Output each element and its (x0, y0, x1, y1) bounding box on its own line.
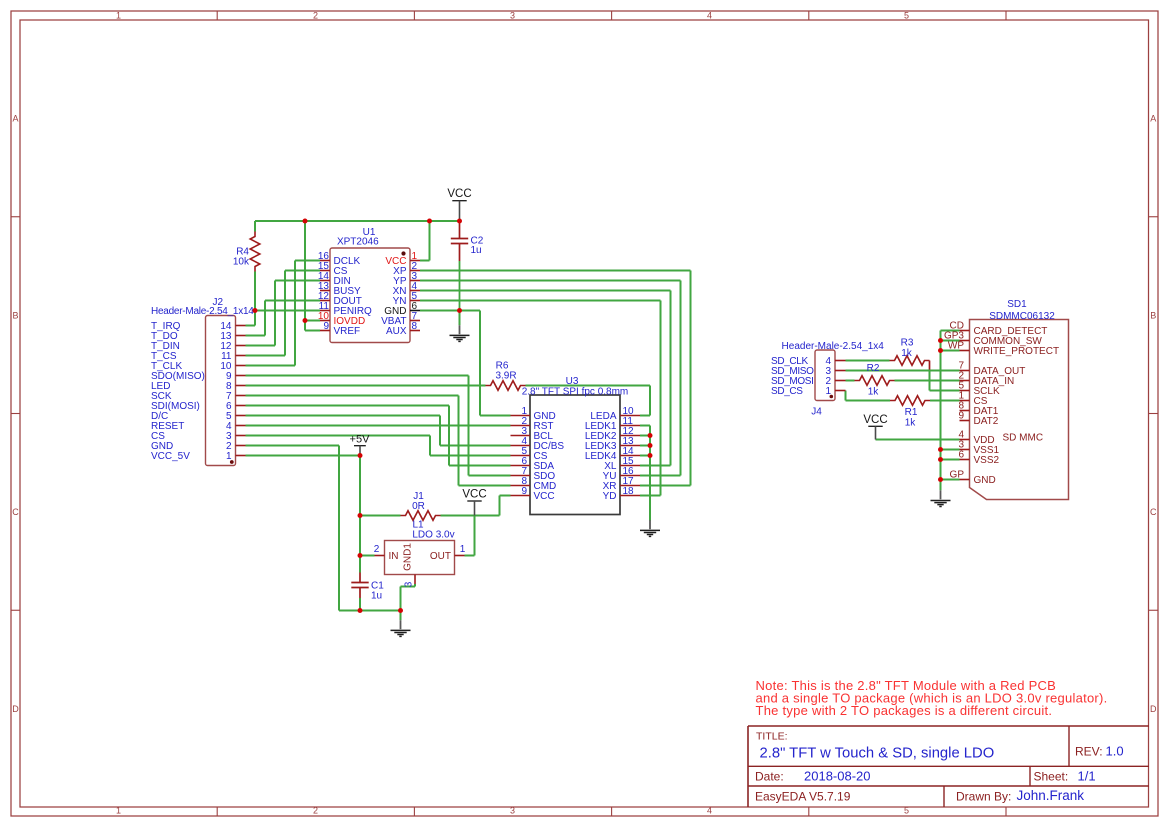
wire net +5V vertical to J1 and LDO IN and C1 (360, 456, 401, 573)
J2 pin 14 T_IRQ (151, 321, 246, 332)
title block REV cell (1075, 743, 1124, 758)
junction U1 GND / C2 / ground (457, 308, 462, 313)
J4 pin 1 SD_CS (771, 386, 846, 397)
U1 pin 14 DIN (318, 271, 351, 287)
svg-text:1: 1 (116, 10, 121, 20)
op-amp/IC U1 XPT2046 body (330, 248, 410, 343)
note annotation text (756, 678, 1108, 718)
resistor R6 3.9R (486, 361, 526, 391)
wire net VCC_5V to +5V (246, 455, 361, 457)
J2 pin 8 LED (151, 381, 246, 392)
svg-text:VSS2: VSS2 (974, 455, 1000, 466)
junction LEDK2 tap (648, 433, 653, 438)
L1 pin 1 OUT (430, 544, 466, 562)
junction LDO GND / ground rail (398, 608, 403, 613)
svg-text:9: 9 (323, 321, 329, 332)
junction COMMON_SW ground tap (938, 338, 943, 343)
connector SD1 SDMMC06132 body (970, 320, 1069, 500)
svg-text:TITLE:: TITLE: (756, 731, 788, 743)
J2 pin 4 RESET (151, 421, 246, 432)
J2 pin 11 T_CS (151, 351, 246, 362)
U1 pin 11 PENIRQ (319, 301, 372, 317)
U3 pin 11 LEDK1 (585, 416, 640, 432)
svg-text:C: C (1150, 507, 1157, 517)
svg-text:SD MMC: SD MMC (1003, 433, 1044, 444)
J2 pin 9 SDO(MISO) (151, 371, 246, 382)
U3 pin 5 CS (511, 446, 548, 462)
svg-text:REV:: REV: (1075, 744, 1103, 758)
J2 pin 2 GND (151, 441, 246, 452)
svg-text:J4: J4 (811, 407, 822, 418)
SD1 pin 7 DATA_OUT (958, 361, 1025, 378)
junction LDO IN tap (358, 553, 363, 558)
wire net YP to YU (420, 281, 681, 476)
resistor R3 1k (890, 338, 930, 366)
svg-text:1k: 1k (905, 417, 917, 428)
wire VCC to U1 pin1 (420, 221, 430, 261)
SD1 pin 1 CS (958, 391, 987, 408)
svg-text:IN: IN (389, 551, 399, 562)
resistor J1 0R (401, 491, 441, 520)
svg-text:3: 3 (510, 806, 515, 816)
capacitor C1 1u (351, 573, 384, 602)
U3 designator labels (522, 376, 629, 397)
power flag VCC (above C2) (447, 188, 471, 221)
svg-text:2: 2 (374, 544, 380, 555)
U1 designator labels (337, 227, 379, 248)
svg-text:1/1: 1/1 (1078, 768, 1096, 783)
J4 pin 3 SD_MISO (771, 366, 846, 377)
wire net T_DO to DOUT (246, 301, 321, 336)
U3 pin 10 LEDA (590, 406, 640, 422)
wire net SD_CS to R1 (846, 391, 891, 401)
svg-text:R3: R3 (901, 338, 914, 349)
U1 pin 16 DCLK (318, 251, 361, 267)
J2 designator and name labels (151, 297, 254, 317)
power flag +5V (350, 433, 371, 455)
SD1 pin WP WRITE_PROTECT (948, 341, 1059, 358)
svg-text:2018-08-20: 2018-08-20 (804, 768, 871, 783)
power flag VCC (at SD VDD) (863, 414, 887, 440)
wire net CS to U3 CS (246, 436, 511, 456)
U3 pin 8 CMD (511, 476, 557, 492)
wire net XN to XL (420, 291, 671, 466)
junction WRITE_PROTECT ground tap (938, 348, 943, 353)
svg-text:5: 5 (904, 10, 909, 20)
svg-text:4: 4 (707, 806, 712, 816)
svg-text:3: 3 (510, 10, 515, 20)
U1 pin 10 IOVDD (318, 311, 365, 327)
junction +5V / J1 input (358, 513, 363, 518)
svg-text:1k: 1k (868, 387, 880, 398)
capacitor C2 1u (451, 221, 484, 311)
power flag VCC (at J1 output) (462, 489, 486, 516)
svg-text:B: B (1150, 310, 1156, 320)
title block Date row (755, 768, 1096, 783)
svg-text:Sheet:: Sheet: (1034, 769, 1069, 783)
svg-text:SDMMC06132: SDMMC06132 (989, 311, 1055, 322)
J2 pin 5 D/C (151, 411, 246, 422)
title block bottom row (755, 788, 1084, 803)
U3 pin 6 SDA (511, 456, 555, 472)
svg-text:VCC_5V: VCC_5V (151, 451, 190, 462)
junction VCC rail / C2 (457, 219, 462, 224)
U1 pin 4 XN (393, 281, 420, 297)
U1 pin 2 XP (393, 261, 420, 277)
svg-text:VCC: VCC (863, 414, 887, 426)
U1 pin 9 VREF (320, 321, 360, 337)
U3 pin 18 YD (603, 486, 640, 502)
wire net SD_MISO to DATA_OUT (846, 370, 960, 372)
svg-text:EasyEDA V5.7.19: EasyEDA V5.7.19 (755, 790, 851, 804)
svg-text:OUT: OUT (430, 551, 451, 562)
svg-text:9: 9 (958, 411, 964, 422)
U1 pin 13 BUSY (318, 281, 361, 297)
svg-text:18: 18 (623, 486, 635, 497)
svg-text:DAT2: DAT2 (974, 416, 999, 427)
J2 pin 1 VCC_5V (151, 451, 246, 462)
wire R4 top lead from VCC rail (254, 221, 256, 232)
junction IOVDD / VREF tap (303, 318, 308, 323)
svg-text:5: 5 (904, 806, 909, 816)
junction VCC rail / IOVDD branch (303, 219, 308, 224)
U1 pin 3 YP (393, 271, 420, 287)
SD1 pin 8 DAT1 (958, 401, 998, 418)
J2 pin 13 T_DO (151, 331, 246, 342)
wire VCC branch to IOVDD and VREF (305, 221, 320, 331)
svg-text:John.Frank: John.Frank (1017, 788, 1085, 803)
svg-text:3.9R: 3.9R (495, 371, 516, 382)
wire net SDI(MOSI) to U3 SDA (246, 406, 511, 466)
junction VSS1 ground tap (938, 447, 943, 452)
svg-text:AUX: AUX (386, 326, 407, 337)
wire net LDO GND pin to ground rail (401, 584, 416, 611)
wire net RESET to U3 RST (246, 425, 511, 427)
ground below SD card (931, 480, 951, 507)
svg-text:R2: R2 (867, 363, 880, 374)
junction SD GND tap (938, 477, 943, 482)
junction C1 / ground rail (358, 608, 363, 613)
svg-text:R1: R1 (905, 407, 918, 418)
regulator L1 LDO 3.0v body (385, 541, 455, 575)
U3 pin 17 XR (603, 476, 640, 492)
wire net YN to YD (420, 301, 661, 496)
junction VSS2 ground tap (938, 457, 943, 462)
SD1 pin 4 VDD (958, 430, 994, 447)
wire net D/C to U3 DC/BS (246, 416, 511, 446)
J2 pin 7 SCK (151, 391, 246, 402)
svg-text:GND1: GND1 (403, 543, 414, 571)
wire net T_DIN to DIN (246, 281, 321, 346)
J4 pin-1 marker dot (830, 395, 834, 399)
svg-text:1u: 1u (371, 591, 382, 602)
SD1 pin 2 DATA_IN (958, 371, 1014, 388)
U1 pin 5 YN (393, 291, 420, 307)
junction VCC rail / U1 pin1 branch (427, 219, 432, 224)
wire VCC top rail (255, 220, 460, 222)
wire net XP to XR (420, 271, 691, 486)
wire R3 bent lead (929, 361, 931, 370)
SD1 label SD MMC (1003, 433, 1044, 444)
wire net LED to R6 (246, 385, 486, 387)
U3 pin 13 LEDK3 (585, 436, 640, 452)
SD1 pin 3 VSS1 (958, 440, 999, 457)
U3 pin 3 BCL (511, 426, 554, 442)
svg-text:SD_CS: SD_CS (771, 386, 803, 397)
J2 pin-1 marker dot (230, 460, 234, 464)
svg-text:VCC: VCC (447, 188, 471, 200)
svg-text:10k: 10k (233, 257, 250, 268)
wire net SD_MOSI to R2 (846, 380, 855, 382)
ground below U3 LEDK (640, 510, 660, 536)
U3 pin 14 LEDK4 (585, 446, 640, 462)
junction LEDK3 tap (648, 443, 653, 448)
J2 pin 10 T_CLK (151, 361, 246, 372)
svg-text:1: 1 (460, 544, 466, 555)
junction R4 / T_IRQ / PENIRQ (253, 308, 258, 313)
svg-text:Header-Male-2.54_1x14: Header-Male-2.54_1x14 (151, 306, 254, 317)
svg-text:A: A (1150, 114, 1156, 124)
junction LEDK4 tap (648, 453, 653, 458)
svg-text:VCC: VCC (534, 491, 555, 502)
svg-text:2.8" TFT w Touch & SD, single: 2.8" TFT w Touch & SD, single LDO (760, 745, 995, 761)
wire net T_CS to CS (246, 271, 321, 356)
svg-text:Date:: Date: (755, 769, 784, 783)
U1 pin 7 VBAT (381, 311, 420, 327)
svg-text:3: 3 (404, 581, 415, 587)
U3 pin 9 VCC (511, 486, 555, 502)
svg-text:2: 2 (313, 806, 318, 816)
U1 pin 6 GND (384, 301, 420, 317)
U3 pin 16 YU (603, 466, 640, 482)
L1 designator labels (412, 519, 454, 540)
J4 designator and name labels (782, 341, 885, 418)
J4 pin 2 SD_MOSI (771, 376, 846, 387)
wire net R6 to LEDA (526, 386, 651, 416)
U1 pin 15 CS (318, 261, 348, 277)
wire net SCK to U3 CMD (246, 396, 511, 486)
svg-text:1k: 1k (901, 348, 913, 359)
svg-text:+5V: +5V (350, 433, 371, 445)
svg-text:LDO 3.0v: LDO 3.0v (412, 529, 454, 540)
J4 pin 4 SD_CLK (771, 356, 846, 367)
svg-text:C: C (12, 507, 19, 517)
svg-text:D: D (1150, 704, 1157, 714)
svg-text:2: 2 (313, 10, 318, 20)
SD1 pin GP3 COMMON_SW (944, 331, 1042, 348)
U3 pin 4 DC/BS (511, 436, 565, 452)
svg-text:VREF: VREF (334, 326, 361, 337)
svg-text:WRITE_PROTECT: WRITE_PROTECT (974, 346, 1060, 357)
junction +5V / VCC_5V (358, 453, 363, 458)
ground below LDO (391, 611, 411, 637)
svg-text:VCC: VCC (462, 489, 486, 501)
SD1 designator labels (989, 299, 1055, 322)
wire net SD_CLK to R3 (846, 360, 890, 362)
svg-text:U3: U3 (566, 376, 579, 387)
J2 pin 6 SDI(MOSI) (151, 401, 246, 412)
connector J4 Header-Male-2.54_1x4 (815, 350, 835, 401)
U1 pin 8 AUX (386, 321, 420, 337)
wire net R2 to DATA_IN (895, 380, 960, 382)
wire net VCC from J1 to LDO OUT and U3 VCC (441, 496, 511, 556)
wire net R3 to SD SCLK (930, 370, 960, 391)
U3 pin 2 RST (511, 416, 554, 432)
wire net GND from J2 to ground rail (246, 446, 401, 611)
svg-text:SD1: SD1 (1007, 299, 1027, 310)
wire net C1 bottom to ground rail (359, 598, 361, 611)
svg-text:0R: 0R (412, 501, 425, 512)
svg-text:6: 6 (958, 450, 964, 461)
wire net T_CLK to DCLK (246, 261, 321, 366)
svg-text:8: 8 (412, 321, 418, 332)
svg-text:4: 4 (707, 10, 712, 20)
svg-text:1: 1 (116, 806, 121, 816)
wire net T_IRQ / PENIRQ with R4 (246, 272, 321, 326)
svg-text:2.8" TFT SPI fpc 0.8mm: 2.8" TFT SPI fpc 0.8mm (522, 387, 629, 398)
U3 pin 12 LEDK2 (585, 426, 640, 442)
U1 pin 12 DOUT (318, 291, 362, 307)
resistor R4 10k (233, 232, 260, 272)
svg-text:9: 9 (521, 486, 527, 497)
connector J2 Header-Male-2.54_1x14 (206, 316, 236, 466)
wire net U1 GND to C2 and U3 GND (420, 311, 511, 416)
J2 pin 3 CS (151, 431, 246, 442)
svg-text:WP: WP (948, 341, 964, 352)
U3 pin 7 SDO (511, 466, 556, 482)
L1 pin 3 GND1 (403, 543, 416, 588)
SD1 pin CD CARD_DETECT (950, 321, 1048, 338)
svg-text:XPT2046: XPT2046 (337, 237, 379, 248)
U3 pin 15 XL (604, 456, 640, 472)
wire SD ground bus (941, 331, 960, 490)
resistor R2 1k (855, 363, 895, 398)
SD1 pin GP GND (950, 470, 996, 487)
SD1 pin 5 SCLK (958, 381, 1000, 398)
svg-text:1.0: 1.0 (1106, 743, 1124, 758)
svg-text:1u: 1u (471, 245, 482, 256)
svg-text:The type with 2 TO packages is: The type with 2 TO packages is a differe… (756, 703, 1053, 718)
svg-text:GP: GP (950, 470, 965, 481)
SD1 pin 9 DAT2 (958, 411, 998, 428)
svg-text:A: A (12, 114, 18, 124)
U1 pin 1 VCC (385, 251, 420, 267)
title block TITLE row (756, 731, 994, 762)
svg-text:B: B (12, 310, 18, 320)
svg-text:Header-Male-2.54_1x4: Header-Male-2.54_1x4 (782, 341, 885, 352)
wire net LEDK cathodes to ground (640, 426, 650, 521)
U3 pin 1 GND (511, 406, 556, 422)
wire net SDO(MISO) to U3 SDO (246, 376, 511, 476)
svg-text:GND: GND (974, 475, 996, 486)
title block frame (748, 726, 1149, 807)
resistor R1 1k (890, 396, 930, 429)
ground below C2 (450, 311, 470, 342)
module U3 2.8 inch TFT body (530, 395, 620, 515)
svg-text:YD: YD (603, 491, 617, 502)
svg-text:D: D (12, 704, 19, 714)
svg-text:Drawn By:: Drawn By: (956, 790, 1011, 804)
wire net VCC to SD VDD (876, 439, 960, 441)
J2 pin 12 T_DIN (151, 341, 246, 352)
SD1 pin 6 VSS2 (958, 450, 999, 467)
L1 pin 2 IN (374, 544, 399, 562)
wire net R1 to SD CS (930, 400, 960, 402)
